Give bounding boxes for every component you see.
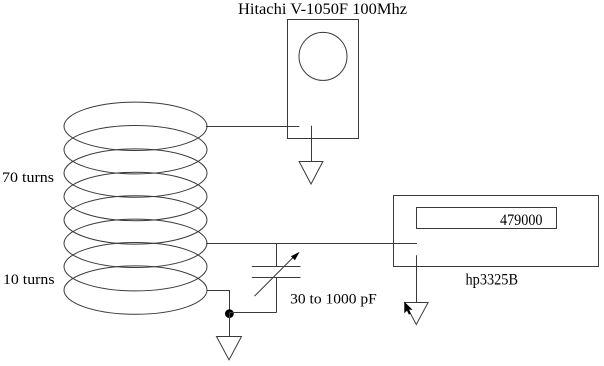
variable capacitor arrow head	[291, 252, 300, 260]
svg-text:479000: 479000	[500, 212, 543, 229]
capacitor C1 top lead	[276, 244, 278, 267]
wire: coil tap to hp3325B input	[206, 243, 417, 245]
oscilloscope box	[288, 20, 359, 139]
ground: bottom	[217, 337, 242, 360]
svg-text:10 turns: 10 turns	[3, 272, 55, 288]
svg-text:30 to 1000 pF: 30 to 1000 pF	[290, 291, 377, 307]
wire: coil top tap to oscilloscope input	[206, 126, 299, 128]
oscilloscope CRT circle	[299, 32, 347, 80]
svg-text:70 turns: 70 turns	[2, 170, 54, 186]
hp3325B display window	[417, 208, 557, 229]
ground: below oscilloscope	[299, 162, 323, 185]
ground: below hp3325B	[405, 303, 429, 325]
wire: oscilloscope ground lead	[311, 126, 313, 162]
capacitor C1 top plate	[252, 266, 301, 268]
capacitor C1 bottom plate	[252, 277, 301, 279]
wire: junction to bottom ground	[229, 313, 231, 337]
wire: junction to capacitor bottom	[230, 312, 277, 314]
node: junction dot	[225, 309, 234, 318]
svg-text:Hitachi V-1050F 100Mhz: Hitachi V-1050F 100Mhz	[238, 1, 407, 18]
hp3325B signal generator box	[394, 196, 599, 267]
capacitor C1 bottom lead	[276, 278, 278, 313]
variable capacitor arrow shaft	[255, 255, 296, 296]
wire: coil bottom to junction node	[207, 291, 230, 313]
mouse cursor pointer	[404, 302, 412, 315]
inductor coil L1 (8 turns drawn)	[64, 102, 207, 314]
wire: hp3325B ground lead	[416, 255, 418, 302]
svg-text:hp3325B: hp3325B	[466, 271, 519, 288]
